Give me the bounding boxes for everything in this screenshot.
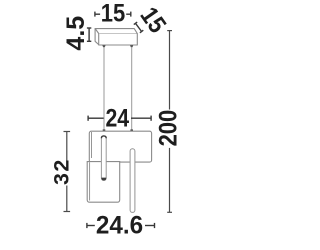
wire connector nub right on box <box>130 129 133 131</box>
svg-text:24: 24 <box>105 104 129 132</box>
dimension 24.6: ticks <box>87 223 155 228</box>
svg-text:15: 15 <box>101 0 125 27</box>
dimension 200: line <box>167 31 172 213</box>
dimension 15 top: line segments <box>95 13 100 15</box>
LED rod left <box>101 136 106 181</box>
dimension 24: line segments <box>88 117 104 119</box>
dimension 200: ticks <box>167 30 172 32</box>
lamp lower box <box>87 162 120 203</box>
upper box inner left line <box>91 132 93 158</box>
lower box inner left line <box>89 162 91 200</box>
dimension 32: ticks <box>64 131 71 133</box>
dimension 24.6: line segments <box>87 225 95 227</box>
svg-text:4.5: 4.5 <box>62 16 90 51</box>
wire connector nub left on box <box>103 129 106 131</box>
svg-text:32: 32 <box>50 158 74 185</box>
lamp upper box <box>89 131 151 162</box>
canopy left face <box>95 29 99 45</box>
suspension wire left <box>103 47 105 131</box>
svg-text:200: 200 <box>154 110 182 147</box>
rod left dark bottom cap <box>101 178 106 181</box>
canopy front face <box>95 29 137 46</box>
dimension 15 diagonal: I-beam <box>134 22 144 33</box>
canopy top face <box>95 29 137 34</box>
canopy wire nub right <box>130 45 133 47</box>
dimension 24: ticks <box>88 116 151 121</box>
canopy wire nub left <box>102 45 105 47</box>
suspension wire right <box>131 47 133 131</box>
dimension 4.5: I-beam <box>87 28 91 41</box>
dimension 15 top: ticks <box>95 12 131 17</box>
dimension 32: line <box>64 132 71 212</box>
LED rod right <box>130 149 135 213</box>
rod left dark top cap <box>101 136 106 138</box>
svg-text:24.6: 24.6 <box>96 212 143 239</box>
